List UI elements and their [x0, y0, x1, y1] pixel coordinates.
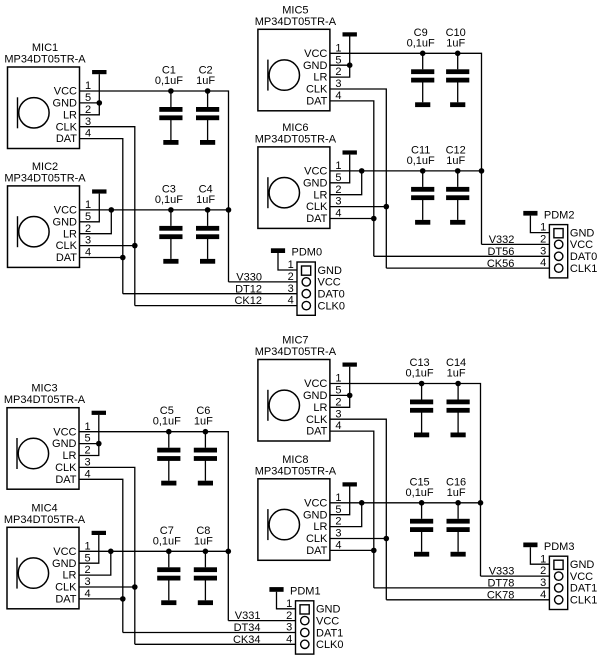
junction C6/VCC [203, 429, 209, 435]
label C1 [162, 65, 176, 77]
ground (MIC8) [343, 482, 357, 486]
junction C11/VCC [420, 168, 426, 174]
svg-text:5: 5 [335, 504, 341, 516]
net label V331 [235, 610, 261, 622]
svg-text:VCC: VCC [54, 205, 77, 217]
svg-text:2: 2 [85, 223, 91, 235]
wire net CK34 [135, 643, 301, 645]
svg-text:MP34DT05TR-A: MP34DT05TR-A [255, 16, 337, 28]
svg-text:0,1uF: 0,1uF [155, 75, 183, 87]
svg-text:DAT0: DAT0 [570, 251, 597, 263]
label C12 [446, 144, 466, 156]
svg-text:CLK: CLK [306, 201, 328, 213]
svg-text:5: 5 [335, 172, 341, 184]
ground (MIC5) [343, 32, 357, 36]
ground (C9) [415, 102, 430, 107]
svg-text:5: 5 [85, 92, 91, 104]
svg-text:DAT: DAT [56, 252, 77, 264]
svg-text:4: 4 [540, 589, 546, 601]
svg-text:GND: GND [52, 438, 77, 450]
svg-text:DAT1: DAT1 [570, 583, 597, 595]
svg-text:2: 2 [335, 184, 341, 196]
junction MIC7 GND/LR [347, 393, 353, 399]
svg-text:1: 1 [286, 598, 292, 610]
microphone MIC7 (MP34DT05TR-A) [255, 335, 342, 442]
junction CLK MIC6 [384, 204, 390, 210]
svg-text:1: 1 [540, 222, 546, 234]
svg-text:CLK0: CLK0 [316, 639, 344, 651]
svg-text:4: 4 [335, 90, 341, 102]
svg-text:MIC3: MIC3 [31, 383, 57, 395]
wire net V332 [482, 243, 555, 245]
pin numbers PDM0 [288, 259, 294, 307]
svg-text:GND: GND [303, 509, 328, 521]
svg-text:GND: GND [303, 177, 328, 189]
ground (C5) [161, 481, 176, 486]
svg-text:LR: LR [313, 402, 327, 414]
ground (MIC7) [343, 363, 357, 367]
wire net DT34 [123, 632, 301, 634]
wire net CK78 [386, 599, 554, 601]
net label DT78 [487, 578, 514, 590]
microphone MIC3 (MP34DT05TR-A) [4, 383, 91, 490]
svg-text:GND: GND [52, 558, 77, 570]
wire MIC3 GND stem [98, 415, 100, 444]
pin labels PDM3 [570, 559, 598, 607]
svg-text:LR: LR [313, 521, 327, 533]
svg-text:4: 4 [540, 257, 546, 269]
label C15 [410, 476, 430, 488]
svg-text:CLK: CLK [306, 84, 328, 96]
label C10 [446, 27, 466, 39]
junction MIC2 LR/VCC [109, 207, 115, 213]
svg-text:MP34DT05TR-A: MP34DT05TR-A [255, 465, 337, 477]
ground (C3) [163, 259, 178, 264]
ground (MIC6) [343, 150, 357, 154]
pin labels PDM0 [318, 265, 346, 313]
svg-text:MP34DT05TR-A: MP34DT05TR-A [4, 172, 86, 184]
svg-text:1uF: 1uF [446, 37, 465, 49]
capacitor C2 [196, 91, 219, 140]
wire net V330 [229, 281, 303, 283]
svg-text:1uF: 1uF [194, 416, 213, 428]
svg-text:MIC7: MIC7 [282, 335, 308, 347]
capacitor C7 [157, 551, 180, 600]
svg-text:GND: GND [303, 390, 328, 402]
svg-text:4: 4 [85, 588, 91, 600]
wire net CK56 [386, 267, 554, 269]
capacitor C8 [194, 551, 217, 600]
pin labels PDM2 [570, 227, 598, 275]
capacitor C10 [446, 53, 469, 102]
svg-text:GND: GND [316, 604, 341, 616]
junction C10/VCC [455, 51, 461, 57]
label C11 [411, 144, 430, 156]
ground (MIC1) [92, 70, 106, 74]
junction CLK MIC4 [132, 584, 138, 590]
svg-text:PDM0: PDM0 [292, 247, 323, 259]
junction C16/VCC [455, 500, 461, 506]
net label CK12 [234, 295, 262, 307]
svg-text:DT56: DT56 [487, 246, 514, 258]
svg-text:MIC8: MIC8 [282, 454, 308, 466]
wire PDM0 pin 1 to ground [278, 253, 302, 270]
svg-text:0,1uF: 0,1uF [407, 37, 435, 49]
net label V332 [489, 234, 515, 246]
wire MIC3 GND pin 5 [79, 443, 99, 445]
wire net V331 [228, 620, 300, 622]
svg-text:1: 1 [335, 373, 341, 385]
junction C12/VCC [455, 168, 461, 174]
svg-text:1: 1 [335, 160, 341, 172]
wire VCC bus MIC7 [330, 384, 481, 577]
pin numbers PDM1 [286, 598, 292, 646]
svg-text:4: 4 [335, 420, 341, 432]
svg-text:0,1uF: 0,1uF [406, 487, 434, 499]
svg-text:CK78: CK78 [487, 589, 515, 601]
svg-text:CLK0: CLK0 [318, 300, 346, 312]
svg-text:2: 2 [335, 516, 341, 528]
capacitor C1 [159, 91, 182, 140]
label C2 value [196, 75, 215, 87]
svg-text:CLK1: CLK1 [570, 595, 598, 607]
wire CLK MIC3 [79, 467, 135, 644]
svg-text:MP34DT05TR-A: MP34DT05TR-A [255, 346, 337, 358]
capacitor C5 [157, 432, 180, 481]
label C10 value [446, 37, 465, 49]
label PDM1 [290, 586, 321, 598]
wire DAT MIC3 [79, 479, 123, 632]
junction C7/VCC [166, 549, 172, 555]
ground (C16) [451, 552, 466, 557]
wire CLK MIC8 [330, 538, 386, 540]
svg-text:0,1uF: 0,1uF [153, 535, 181, 547]
svg-text:1: 1 [335, 492, 341, 504]
junction VCC bus/MIC8 [478, 500, 484, 506]
wire CLK MIC7 [330, 419, 386, 600]
svg-text:DAT: DAT [306, 96, 327, 108]
svg-text:LR: LR [63, 228, 77, 240]
ground (C15) [414, 552, 429, 557]
svg-text:4: 4 [286, 633, 292, 645]
microphone MIC5 (MP34DT05TR-A) [255, 4, 342, 111]
label C9 value [407, 37, 435, 49]
junction DAT MIC8 [371, 548, 377, 554]
svg-text:5: 5 [85, 211, 91, 223]
junction VCC bus/MIC4 [226, 549, 232, 555]
svg-text:3: 3 [85, 576, 91, 588]
junction C15/VCC [419, 500, 425, 506]
ground (C1) [163, 140, 178, 145]
wire DAT MIC1 [80, 139, 123, 294]
svg-text:1: 1 [288, 259, 294, 271]
label C13 value [406, 368, 434, 380]
svg-text:VCC: VCC [53, 426, 76, 438]
capacitor C14 [447, 384, 470, 433]
svg-text:VCC: VCC [570, 571, 593, 583]
svg-text:3: 3 [540, 245, 546, 257]
wire VCC bus MIC5 [330, 53, 482, 244]
wire MIC4 LR pin 2 to VCC [79, 551, 111, 575]
svg-text:VCC: VCC [316, 615, 339, 627]
capacitor C4 [196, 210, 219, 259]
label C6 [196, 405, 210, 417]
svg-text:4: 4 [85, 247, 91, 259]
svg-text:4: 4 [335, 208, 341, 220]
label C11 value [407, 155, 435, 167]
svg-text:DT78: DT78 [487, 578, 514, 590]
junction C14/VCC [455, 381, 461, 387]
svg-text:VCC: VCC [570, 239, 593, 251]
wire MIC5 GND pin 5 [330, 64, 350, 66]
svg-text:DT12: DT12 [235, 283, 262, 295]
svg-text:1uF: 1uF [447, 368, 466, 380]
ground (MIC2) [92, 189, 106, 193]
svg-text:VCC: VCC [304, 48, 327, 60]
microphone MIC8 (MP34DT05TR-A) [255, 454, 342, 561]
label C12 value [446, 155, 465, 167]
wire net DT12 [123, 293, 302, 295]
wire PDM2 pin 1 to ground [530, 216, 554, 233]
svg-text:VCC: VCC [304, 378, 327, 390]
svg-text:LR: LR [313, 189, 327, 201]
wire MIC8 LR pin 2 to VCC [330, 503, 362, 527]
svg-text:CLK: CLK [306, 533, 328, 545]
wire DAT MIC7 [330, 431, 374, 588]
svg-text:3: 3 [85, 457, 91, 469]
capacitor C12 [446, 171, 469, 220]
svg-text:0,1uF: 0,1uF [153, 416, 181, 428]
net label V333 [489, 566, 515, 578]
wire VCC bus MIC8 [330, 502, 481, 504]
wire CLK MIC4 [79, 586, 135, 588]
label C15 value [406, 487, 434, 499]
svg-text:3: 3 [85, 235, 91, 247]
label PDM0 [292, 247, 323, 259]
svg-text:V330: V330 [236, 272, 262, 284]
ground (C11) [415, 220, 430, 225]
svg-text:CLK: CLK [55, 582, 77, 594]
wire MIC4 GND pin 5 [79, 535, 99, 563]
wire MIC5 GND stem [349, 37, 351, 66]
svg-text:CLK: CLK [55, 462, 77, 474]
svg-text:0,1uF: 0,1uF [407, 155, 435, 167]
label C8 [196, 525, 210, 537]
wire CLK MIC1 [80, 127, 135, 306]
wire net DT56 [374, 255, 555, 257]
junction C2/VCC [205, 88, 211, 94]
svg-text:GND: GND [318, 265, 343, 277]
junction C9/VCC [420, 51, 426, 57]
capacitor C6 [194, 432, 217, 481]
ground (C14) [451, 433, 466, 438]
svg-text:4: 4 [85, 468, 91, 480]
svg-text:4: 4 [335, 540, 341, 552]
label C16 value [447, 487, 466, 499]
svg-text:1uF: 1uF [196, 194, 215, 206]
wire MIC3 LR pin 2 to GND [79, 444, 99, 456]
wire MIC1 LR pin 2 to GND [80, 103, 100, 115]
wire MIC1 GND stem [98, 74, 100, 103]
label C8 value [194, 535, 213, 547]
svg-text:V332: V332 [489, 234, 515, 246]
net label DT12 [235, 283, 262, 295]
wire MIC7 GND pin 5 [330, 394, 350, 396]
svg-text:VCC: VCC [318, 277, 341, 289]
svg-text:3: 3 [288, 283, 294, 295]
net label DT34 [234, 622, 261, 634]
ground (C8) [198, 600, 213, 605]
svg-text:MIC6: MIC6 [282, 122, 308, 134]
svg-text:VCC: VCC [304, 497, 327, 509]
label C5 [160, 405, 174, 417]
svg-text:2: 2 [288, 271, 294, 283]
wire MIC6 GND pin 5 [330, 155, 350, 183]
svg-text:DAT: DAT [56, 133, 77, 145]
svg-text:DAT: DAT [306, 213, 327, 225]
svg-text:CLK: CLK [56, 121, 78, 133]
label C7 [160, 525, 174, 537]
wire CLK MIC2 [80, 245, 135, 247]
ground (C2) [200, 140, 215, 145]
wire MIC6 LR pin 2 to VCC [330, 171, 362, 195]
junction MIC4 LR/VCC [108, 549, 114, 555]
svg-text:1uF: 1uF [196, 75, 215, 87]
ground (C6) [198, 481, 213, 486]
microphone MIC6 (MP34DT05TR-A) [255, 122, 342, 229]
label C1 value [155, 75, 183, 87]
connector PDM0 [297, 262, 315, 315]
svg-text:1uF: 1uF [446, 155, 465, 167]
svg-text:LR: LR [63, 109, 77, 121]
svg-text:3: 3 [335, 78, 341, 90]
wire PDM1 pin 1 to ground [277, 592, 301, 609]
svg-text:GND: GND [53, 98, 78, 110]
wire VCC bus MIC3 [79, 432, 228, 621]
junction MIC5 GND/LR [347, 62, 353, 68]
net label CK78 [487, 589, 515, 601]
wire MIC7 LR pin 2 to GND [330, 395, 350, 407]
svg-text:1: 1 [85, 540, 91, 552]
junction C5/VCC [166, 429, 172, 435]
wire MIC1 GND pin 5 [80, 102, 100, 104]
wire PDM3 pin 1 to ground [530, 547, 554, 564]
pin labels PDM1 [316, 604, 344, 652]
svg-text:DAT: DAT [55, 474, 76, 486]
svg-text:0,1uF: 0,1uF [406, 368, 434, 380]
svg-text:2: 2 [540, 234, 546, 246]
svg-text:LR: LR [62, 450, 76, 462]
junction DAT MIC2 [120, 255, 126, 261]
ground (PDM1) [269, 587, 283, 592]
svg-text:DAT: DAT [55, 594, 76, 606]
label C4 value [196, 194, 215, 206]
svg-text:VCC: VCC [53, 546, 76, 558]
svg-text:1: 1 [85, 421, 91, 433]
capacitor C9 [411, 53, 434, 102]
svg-text:3: 3 [286, 622, 292, 634]
wire DAT MIC5 [330, 101, 374, 256]
capacitor C11 [411, 171, 434, 220]
junction VCC bus/MIC2 [226, 207, 232, 213]
label PDM2 [544, 209, 575, 221]
wire VCC bus MIC2 [80, 209, 229, 211]
wire MIC7 GND stem [349, 367, 351, 396]
svg-text:5: 5 [335, 385, 341, 397]
junction C13/VCC [419, 381, 425, 387]
connector PDM2 [549, 225, 567, 278]
svg-text:2: 2 [85, 445, 91, 457]
svg-text:GND: GND [570, 227, 595, 239]
wire DAT MIC8 [330, 549, 374, 551]
svg-text:4: 4 [85, 128, 91, 140]
connector PDM3 [549, 556, 567, 609]
wire net CK12 [135, 305, 302, 307]
svg-text:3: 3 [335, 196, 341, 208]
wire MIC2 LR pin 2 to VCC [80, 210, 112, 234]
svg-text:1: 1 [540, 553, 546, 565]
wire VCC bus MIC6 [330, 170, 482, 172]
svg-text:MIC2: MIC2 [32, 161, 58, 173]
label PDM3 [544, 541, 575, 553]
svg-text:2: 2 [335, 66, 341, 78]
svg-text:MP34DT05TR-A: MP34DT05TR-A [255, 133, 337, 145]
junction C8/VCC [203, 549, 209, 555]
junction MIC3 GND/LR [96, 441, 102, 447]
svg-text:5: 5 [85, 552, 91, 564]
wire DAT MIC4 [79, 598, 123, 600]
svg-text:LR: LR [313, 72, 327, 84]
wire DAT MIC6 [330, 218, 374, 220]
svg-text:3: 3 [335, 408, 341, 420]
capacitor C3 [159, 210, 182, 259]
label C5 value [153, 416, 181, 428]
ground (MIC3) [92, 411, 106, 415]
capacitor C15 [410, 503, 433, 552]
ground (C12) [450, 220, 465, 225]
junction MIC6 LR/VCC [359, 168, 365, 174]
svg-text:MP34DT05TR-A: MP34DT05TR-A [4, 394, 86, 406]
ground (C10) [450, 102, 465, 107]
svg-text:MIC4: MIC4 [31, 502, 57, 514]
net label CK56 [487, 258, 515, 270]
ground (MIC4) [92, 531, 106, 535]
wire VCC bus MIC1 [80, 91, 229, 282]
wire VCC bus MIC4 [79, 550, 228, 552]
ground (C13) [414, 433, 429, 438]
svg-text:DAT1: DAT1 [316, 627, 343, 639]
microphone MIC2 (MP34DT05TR-A) [4, 161, 91, 268]
svg-text:0,1uF: 0,1uF [155, 194, 183, 206]
svg-text:DAT0: DAT0 [318, 289, 345, 301]
svg-text:DAT: DAT [306, 426, 327, 438]
svg-text:2: 2 [286, 610, 292, 622]
svg-text:1: 1 [85, 80, 91, 92]
svg-text:2: 2 [85, 104, 91, 116]
wire DAT MIC2 [80, 257, 123, 259]
microphone MIC4 (MP34DT05TR-A) [4, 502, 91, 609]
label C2 [199, 65, 213, 77]
label C7 value [153, 535, 181, 547]
junction CLK MIC2 [132, 243, 138, 249]
capacitor C13 [410, 384, 433, 433]
svg-text:VCC: VCC [54, 86, 77, 98]
wire net DT78 [374, 587, 555, 589]
junction MIC8 LR/VCC [359, 500, 365, 506]
svg-text:5: 5 [85, 433, 91, 445]
net label DT56 [487, 246, 514, 258]
svg-text:1uF: 1uF [194, 535, 213, 547]
